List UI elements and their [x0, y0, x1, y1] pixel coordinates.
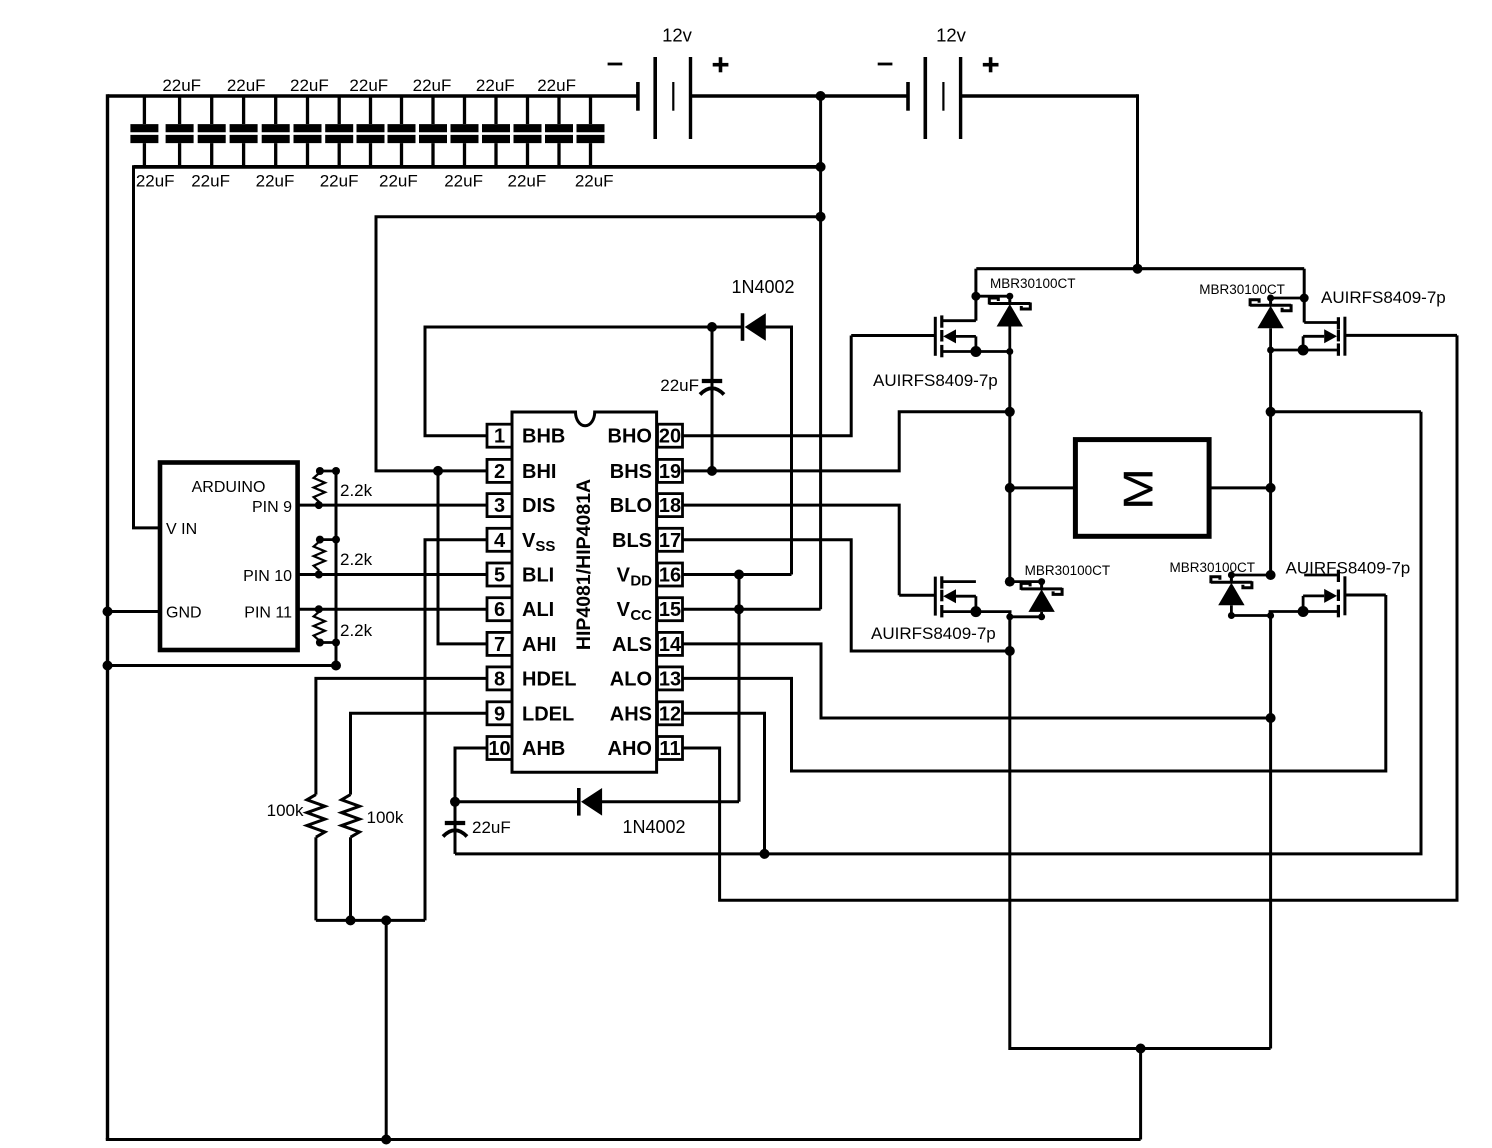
resistor R1 2.2k (PIN 9) [314, 471, 336, 505]
op-amp/driver IC U1 HIP4081A body [512, 412, 657, 772]
wire Q2 source vertical to bottom bus [1010, 612, 1271, 1049]
wire pin 10 AHB to bootstrap cap C17 [455, 748, 487, 802]
node +12V junction below battery B1 [816, 91, 826, 101]
wire left phase node vertical [1008, 352, 1011, 582]
pin 9 box (LDEL) [487, 702, 512, 725]
wire battery B1 positive to junction [691, 94, 821, 97]
node R1 bottom junction on PIN 9 wire [315, 501, 323, 509]
wire capacitor bank bottom rail [134, 165, 821, 169]
svg-text:3: 3 [494, 495, 505, 517]
node junction Q2 source / D4 anode [1006, 613, 1013, 620]
capacitor C14 22uF (bank) [545, 96, 573, 167]
pin 10 box (AHB) [487, 737, 512, 760]
node junction BHS at bootstrap cap C16 [707, 466, 717, 476]
svg-text:V: V [617, 599, 631, 621]
node junction Q2 drain on phase node [1005, 577, 1015, 587]
node junction ALS at Q4 source [1266, 713, 1276, 723]
node junction ground bus on left rail [103, 661, 113, 671]
svg-text:22uF: 22uF [444, 172, 483, 191]
svg-text:22uF: 22uF [575, 172, 614, 191]
wire Arduino GND to left rail [108, 610, 161, 613]
pin 7 box (AHI) [487, 632, 512, 655]
transistor Q4 AUIRFS8409-7p (low-side right) [1269, 570, 1386, 618]
wire pin 20 BHO to gate of Q1 [683, 336, 852, 436]
wire bottom ground bus [106, 1138, 1141, 1141]
node D3 cathode stub [1006, 293, 1013, 300]
svg-text:1N4002: 1N4002 [731, 277, 794, 297]
svg-text:1N4002: 1N4002 [622, 817, 685, 837]
wire pin 16 VDD [683, 573, 792, 576]
wire D3 cathode link [976, 295, 1010, 298]
node D6 anode junction [1228, 612, 1235, 619]
svg-text:18: 18 [659, 495, 681, 517]
svg-text:22uF: 22uF [162, 76, 201, 95]
node junction AHS on right phase node [1266, 407, 1276, 417]
battery B2 12v plus sign [983, 57, 999, 72]
svg-text:12v: 12v [662, 25, 693, 46]
wire motor right lead [1209, 486, 1271, 489]
svg-text:12v: 12v [936, 25, 967, 46]
node junction motor right terminal [1266, 483, 1276, 493]
arduino module box [160, 463, 298, 651]
node junction ground bus to 2.2k vertical [331, 661, 341, 671]
node D4 anode junction [1038, 613, 1045, 620]
svg-text:12: 12 [659, 703, 681, 725]
svg-text:MBR30100CT: MBR30100CT [990, 276, 1076, 291]
node junction BHS on left phase node [1005, 407, 1015, 417]
svg-text:V: V [617, 565, 631, 587]
svg-text:BHI: BHI [522, 461, 556, 483]
transistor Q3 AUIRFS8409-7p (high-side right) [1269, 317, 1457, 356]
node junction BLS at Q2 source [1005, 646, 1015, 656]
svg-text:4: 4 [494, 530, 506, 552]
node junction VDD/VCC tie (pin 15) [734, 604, 744, 614]
wire D3 anode to Q1 source [1008, 327, 1011, 352]
pin 20 box (BHO) [658, 424, 683, 447]
motor M box [1075, 440, 1209, 537]
svg-text:M: M [1114, 468, 1161, 510]
wire pin 14 ALS sense line [683, 644, 1271, 718]
diode D4 MBR30100CT (across Q2) [1021, 582, 1062, 612]
capacitor C5 22uF (bank) [262, 96, 290, 167]
svg-text:6: 6 [494, 599, 505, 621]
node D3 anode junction on source tap [1006, 348, 1013, 355]
capacitor C13 22uF (bank) [514, 96, 542, 167]
node junction AHB/bootstrap cap C17 top [450, 797, 460, 807]
diode D5 MBR30100CT (across Q3) [1250, 298, 1291, 328]
node junction AHS drop on AHS bus [760, 849, 770, 859]
capacitor C12 22uF (bank) [482, 96, 510, 167]
pin 3 box (DIS) [487, 494, 512, 517]
wire ground drop from 100k rail to bottom bus [385, 920, 388, 1139]
svg-text:22uF: 22uF [660, 376, 699, 395]
wire pin 1 BHB to bootstrap diode row [425, 327, 741, 436]
wire ground bus for 2.2k resistors [108, 664, 337, 667]
svg-text:5: 5 [494, 565, 505, 587]
wire battery return drop [1139, 1049, 1142, 1140]
pin 13 box (ALO) [658, 667, 683, 690]
svg-text:DIS: DIS [522, 495, 555, 517]
pin 19 box (BHS) [658, 459, 683, 482]
svg-text:BLI: BLI [522, 565, 554, 587]
svg-text:17: 17 [659, 530, 681, 552]
wire Q3 drain to top rail [1303, 269, 1306, 323]
pin 14 box (ALS) [658, 632, 683, 655]
pin 12 box (AHS) [658, 702, 683, 725]
pin 2 box (BHI) [487, 459, 512, 482]
wire bottom bootstrap row to D2 [455, 800, 577, 803]
capacitor C16 22uF (top bootstrap) [700, 327, 724, 471]
wire main left vertical rail (battery negative bus) [106, 94, 109, 1139]
wire pin 11 AHO to gate of Q3 [683, 335, 1458, 900]
node junction H-bridge bottom bus to battery return [1136, 1044, 1146, 1054]
wire Q4 source vertical to bottom bus [1269, 612, 1272, 1049]
svg-text:19: 19 [659, 461, 681, 483]
capacitor C17 22uF (bottom bootstrap) [443, 802, 467, 854]
node junction bootstrap cap C16 top [707, 322, 717, 332]
capacitor C7 22uF (bank) [325, 96, 353, 167]
svg-text:HIP4081/HIP4081A: HIP4081/HIP4081A [573, 479, 595, 650]
svg-text:22uF: 22uF [349, 76, 388, 95]
svg-text:16: 16 [659, 565, 681, 587]
svg-text:1: 1 [494, 426, 505, 448]
wire battery B2 positive to H-bridge [962, 94, 1138, 97]
svg-text:MBR30100CT: MBR30100CT [1199, 282, 1285, 297]
node junction +12V with BHI rail [816, 212, 826, 222]
svg-text:14: 14 [659, 634, 682, 656]
svg-text:22uF: 22uF [508, 172, 547, 191]
wire top rail from capacitor bank to battery B1 negative [108, 94, 638, 97]
node D4 cathode stub [1038, 578, 1045, 585]
wire H-bridge top rail [976, 267, 1304, 270]
svg-text:22uF: 22uF [256, 172, 295, 191]
svg-text:MBR30100CT: MBR30100CT [1170, 560, 1256, 575]
node junction ground drop on bottom bus [381, 1135, 391, 1145]
svg-text:22uF: 22uF [290, 76, 329, 95]
wire R5 bottom lead [349, 837, 352, 920]
wire D6 anode stub [1230, 605, 1233, 615]
svg-text:10: 10 [488, 738, 510, 760]
node R2 top junctions [316, 536, 340, 544]
node R3 bottom junctions [316, 639, 340, 647]
pin 15 box (VCC) [658, 598, 683, 621]
pin 4 box (VSS) [487, 528, 512, 551]
node R2 bottom junction on PIN 10 wire [315, 571, 323, 579]
wire V IN drop from cap bank rail to Arduino [134, 165, 161, 528]
node D5 cathode stub [1267, 295, 1274, 302]
node junction battery feed on H-bridge top rail [1133, 264, 1143, 274]
pin 11 box (AHO) [658, 737, 683, 760]
diode D6 MBR30100CT (across Q4) [1211, 575, 1252, 605]
pin 1 box (BHB) [487, 424, 512, 447]
resistor R2 2.2k (PIN 10) [314, 540, 336, 575]
battery B2 12v minus sign [878, 63, 893, 66]
svg-text:22uF: 22uF [537, 76, 576, 95]
svg-text:ARDUINO: ARDUINO [192, 479, 266, 496]
svg-text:BLS: BLS [612, 530, 652, 552]
svg-text:AUIRFS8409-7p: AUIRFS8409-7p [1286, 559, 1411, 578]
capacitor C11 22uF (bank) [451, 96, 479, 167]
wire motor left lead [1010, 486, 1076, 489]
svg-text:2.2k: 2.2k [340, 550, 373, 569]
resistor R3 2.2k (PIN 11) [314, 612, 336, 643]
wire right phase node vertical [1269, 350, 1272, 575]
battery B1 12v plus sign [713, 57, 729, 72]
svg-text:PIN 10: PIN 10 [243, 568, 292, 585]
svg-text:PIN 11: PIN 11 [244, 605, 292, 622]
wire pin 9 LDEL to 100k resistor R5 [351, 713, 488, 794]
wire BHI to AHI tie (pin 2 to pin 7) [438, 471, 487, 644]
node D5 anode junction on source tap [1267, 347, 1274, 354]
svg-text:PIN 9: PIN 9 [252, 499, 292, 516]
wire D4 anode row to Q2 source vertical [1010, 615, 1042, 618]
svg-text:100k: 100k [367, 808, 404, 827]
wire AHS link to Q3 source node [1271, 410, 1421, 413]
diode D3 MBR30100CT (across Q1) [989, 296, 1030, 326]
svg-text:AHB: AHB [522, 738, 565, 760]
transistor Q1 AUIRFS8409-7p (high-side left) [851, 315, 1011, 357]
node junction R5 on 100k rail [346, 915, 356, 925]
wire +12V vertical feed to VCC [819, 96, 822, 609]
capacitor C15 22uF (bank) [577, 96, 605, 167]
wire D4 anode stub [1040, 612, 1043, 617]
capacitor C2 22uF (bank) [166, 96, 194, 167]
capacitor C6 22uF (bank) [294, 96, 322, 167]
battery B1 12v minus sign [608, 63, 623, 66]
wire VDD/VCC vertical to bottom bootstrap diode [738, 575, 741, 802]
svg-text:AHO: AHO [608, 738, 652, 760]
wire BHI +12V rail (top) [376, 217, 821, 471]
node junction BHI/AHI tie [433, 466, 443, 476]
svg-text:AHI: AHI [522, 634, 556, 656]
node R1 top junctions [316, 467, 340, 475]
battery B1 12v [638, 57, 691, 139]
capacitor C10 22uF (bank) [419, 96, 447, 167]
battery B2 12v [908, 57, 961, 139]
wire D5 anode to Q3 source [1269, 328, 1272, 350]
svg-text:BLO: BLO [610, 495, 652, 517]
resistor R4 100k (HDEL) [307, 795, 325, 838]
node junction Q1 drain / D3 cathode [971, 292, 980, 301]
pin 17 box (BLS) [658, 528, 683, 551]
pin 16 box (VDD) [658, 563, 683, 586]
svg-text:AUIRFS8409-7p: AUIRFS8409-7p [873, 371, 998, 390]
svg-text:BHS: BHS [610, 461, 652, 483]
svg-text:AUIRFS8409-7p: AUIRFS8409-7p [1321, 288, 1446, 307]
diode D1 1N4002 (top bootstrap) [743, 313, 766, 341]
svg-text:AUIRFS8409-7p: AUIRFS8409-7p [871, 624, 996, 643]
wire pin 8 HDEL to 100k resistor R4 [316, 678, 487, 794]
capacitor C4 22uF (bank) [230, 96, 258, 167]
wire D2 anode to VDD/VCC vertical [600, 800, 739, 803]
svg-text:HDEL: HDEL [522, 668, 576, 690]
node D6 cathode stub [1228, 572, 1235, 579]
svg-text:LDEL: LDEL [522, 703, 574, 725]
pin 5 box (BLI) [487, 563, 512, 586]
wire D6 anode row to Q4 source vertical [1231, 614, 1270, 617]
node junction Q4 drain on phase node [1266, 570, 1276, 580]
node junction motor left terminal [1005, 483, 1015, 493]
pin 8 box (HDEL) [487, 667, 512, 690]
svg-text:2: 2 [494, 461, 505, 483]
svg-text:22uF: 22uF [472, 818, 511, 837]
wire Q4 drain tap extension to D6 [1231, 574, 1270, 577]
wire pin 19 BHS sense line [683, 412, 1010, 471]
node junction GND on left rail [103, 607, 113, 617]
capacitor C8 22uF (bank) [357, 96, 385, 167]
svg-text:ALI: ALI [522, 599, 554, 621]
wire battery B1 junction to battery B2 negative [821, 94, 908, 97]
wire D5 cathode link [1271, 297, 1305, 300]
capacitor C1 22uF (bank) [130, 96, 158, 167]
svg-text:GND: GND [166, 605, 202, 622]
svg-text:BHO: BHO [608, 426, 652, 448]
node junction Q3 drain / D5 cathode [1300, 294, 1309, 303]
svg-text:15: 15 [659, 599, 681, 621]
wire pin 15 VCC to +12V rail [683, 608, 821, 611]
wire pin 18 BLO to gate of Q2 [683, 505, 900, 595]
wire pin 4 VSS down to 100k rail [425, 540, 487, 921]
svg-text:22uF: 22uF [136, 172, 175, 191]
node junction Q4 source / D6 anode [1267, 612, 1274, 619]
wire AHS bus from bootstrap cap C17 to Q3 source [455, 412, 1421, 854]
resistor R5 100k (LDEL) [342, 795, 360, 838]
svg-text:V IN: V IN [166, 521, 197, 538]
svg-text:2.2k: 2.2k [340, 481, 373, 500]
svg-text:BHB: BHB [522, 426, 565, 448]
svg-text:2.2k: 2.2k [340, 621, 373, 640]
svg-text:9: 9 [494, 703, 505, 725]
svg-text:CC: CC [630, 607, 652, 624]
wire Q2 drain tap extension to D4 [1010, 580, 1042, 583]
svg-text:8: 8 [494, 668, 505, 690]
wire right drop to H-bridge top rail [1136, 94, 1139, 268]
svg-text:MBR30100CT: MBR30100CT [1025, 563, 1111, 578]
wire pin 12 AHS sense line (drop) [683, 713, 765, 854]
node junction VDD/VCC tie (pin 16) [734, 570, 744, 580]
wire Arduino PIN 9 to HIP4081 DIS pin 3 [298, 504, 487, 507]
svg-text:22uF: 22uF [379, 172, 418, 191]
svg-text:ALO: ALO [610, 668, 652, 690]
capacitor C3 22uF (bank) [198, 96, 226, 167]
svg-text:22uF: 22uF [476, 76, 515, 95]
wire 100k bottom rail [316, 919, 425, 922]
svg-text:20: 20 [659, 426, 681, 448]
svg-text:22uF: 22uF [227, 76, 266, 95]
svg-text:ALS: ALS [612, 634, 652, 656]
svg-text:11: 11 [659, 738, 680, 760]
svg-text:22uF: 22uF [413, 76, 452, 95]
node junction ground drop on 100k rail [381, 915, 391, 925]
pin 18 box (BLO) [658, 494, 683, 517]
svg-text:7: 7 [494, 634, 505, 656]
transistor Q2 AUIRFS8409-7p (low-side left) [899, 576, 1011, 617]
wire Arduino PIN 11 to HIP4081 ALI pin 6 [298, 608, 487, 611]
svg-text:22uF: 22uF [320, 172, 359, 191]
wire Q1 drain to top rail [974, 269, 977, 321]
wire pin 17 BLS sense line [683, 540, 1010, 651]
svg-text:DD: DD [630, 573, 652, 590]
wire R4 bottom lead [314, 837, 317, 920]
svg-text:100k: 100k [267, 801, 304, 820]
svg-text:22uF: 22uF [191, 172, 230, 191]
svg-text:AHS: AHS [610, 703, 652, 725]
node R3 top junction on PIN 11 wire [315, 605, 323, 613]
wire pin 13 ALO to gate of Q4 [683, 595, 1386, 771]
node junction +12V with cap bank bottom rail [816, 162, 826, 172]
svg-text:13: 13 [659, 668, 681, 690]
capacitor C9 22uF (bank) [388, 96, 416, 167]
wire D1 anode to VDD vertical [764, 327, 792, 575]
diode D2 1N4002 (bottom bootstrap) [579, 788, 602, 816]
pin 6 box (ALI) [487, 598, 512, 621]
wire Arduino PIN 10 to HIP4081 BLI pin 5 [298, 573, 487, 576]
wire 2.2k common vertical to ground bus [335, 471, 338, 666]
